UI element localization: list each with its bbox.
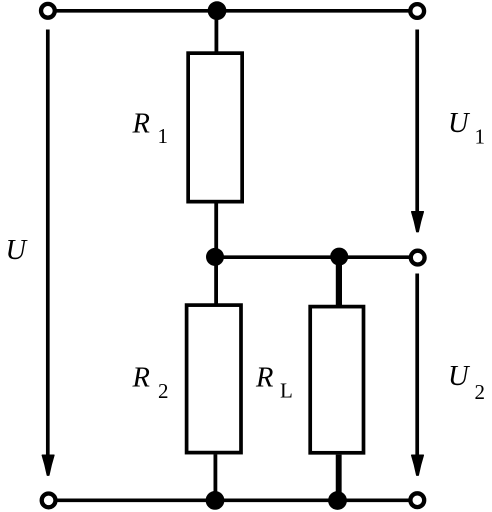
junction dot middle-right bbox=[330, 248, 348, 266]
junction dot bottom-left bbox=[206, 491, 225, 510]
arrowhead U1 (down) bbox=[412, 212, 424, 232]
svg-text:2: 2 bbox=[158, 379, 169, 403]
wire: R1 top stub bbox=[214, 11, 218, 53]
svg-text:R: R bbox=[132, 108, 150, 139]
terminal top-left (open circle) bbox=[41, 4, 55, 18]
svg-text:L: L bbox=[280, 379, 293, 403]
arrowhead U2 (down) bbox=[412, 455, 424, 475]
resistor R2 bbox=[187, 305, 241, 453]
wire: R2 top stub bbox=[214, 257, 218, 305]
terminal middle-right (open circle) bbox=[411, 251, 425, 265]
wire: R1 bottom stub bbox=[214, 204, 218, 258]
junction dot bottom-right bbox=[328, 491, 347, 510]
junction dot middle-left (node B) bbox=[206, 248, 224, 266]
svg-text:1: 1 bbox=[158, 124, 169, 148]
svg-text:R: R bbox=[255, 363, 273, 394]
terminal top-right (open circle) bbox=[410, 4, 424, 18]
wire: RL bottom stub bbox=[336, 455, 342, 501]
svg-text:U: U bbox=[448, 108, 471, 139]
resistor RL bbox=[310, 307, 363, 453]
svg-text:2: 2 bbox=[475, 380, 486, 404]
wire: left rail (U arrow shaft) bbox=[46, 30, 50, 457]
wire: RL top stub bbox=[336, 257, 342, 306]
terminal bottom-right (open circle) bbox=[410, 493, 424, 507]
wire: bottom rail bbox=[49, 498, 418, 502]
terminal bottom-left (open circle) bbox=[42, 494, 56, 508]
wire: middle rail bbox=[216, 255, 418, 259]
resistor R1 bbox=[188, 53, 242, 202]
wire: right rail lower (U2 arrow shaft) bbox=[415, 274, 419, 457]
wire: top rail bbox=[48, 9, 417, 13]
svg-text:1: 1 bbox=[475, 124, 486, 148]
svg-text:U: U bbox=[6, 235, 29, 266]
wire: right rail upper (U1 arrow shaft) bbox=[415, 30, 419, 213]
junction dot top (node A) bbox=[208, 1, 227, 20]
wire: R2 bottom stub bbox=[213, 454, 217, 500]
svg-text:U: U bbox=[448, 361, 471, 392]
arrowhead U (down) bbox=[42, 455, 54, 475]
svg-text:R: R bbox=[132, 363, 150, 394]
